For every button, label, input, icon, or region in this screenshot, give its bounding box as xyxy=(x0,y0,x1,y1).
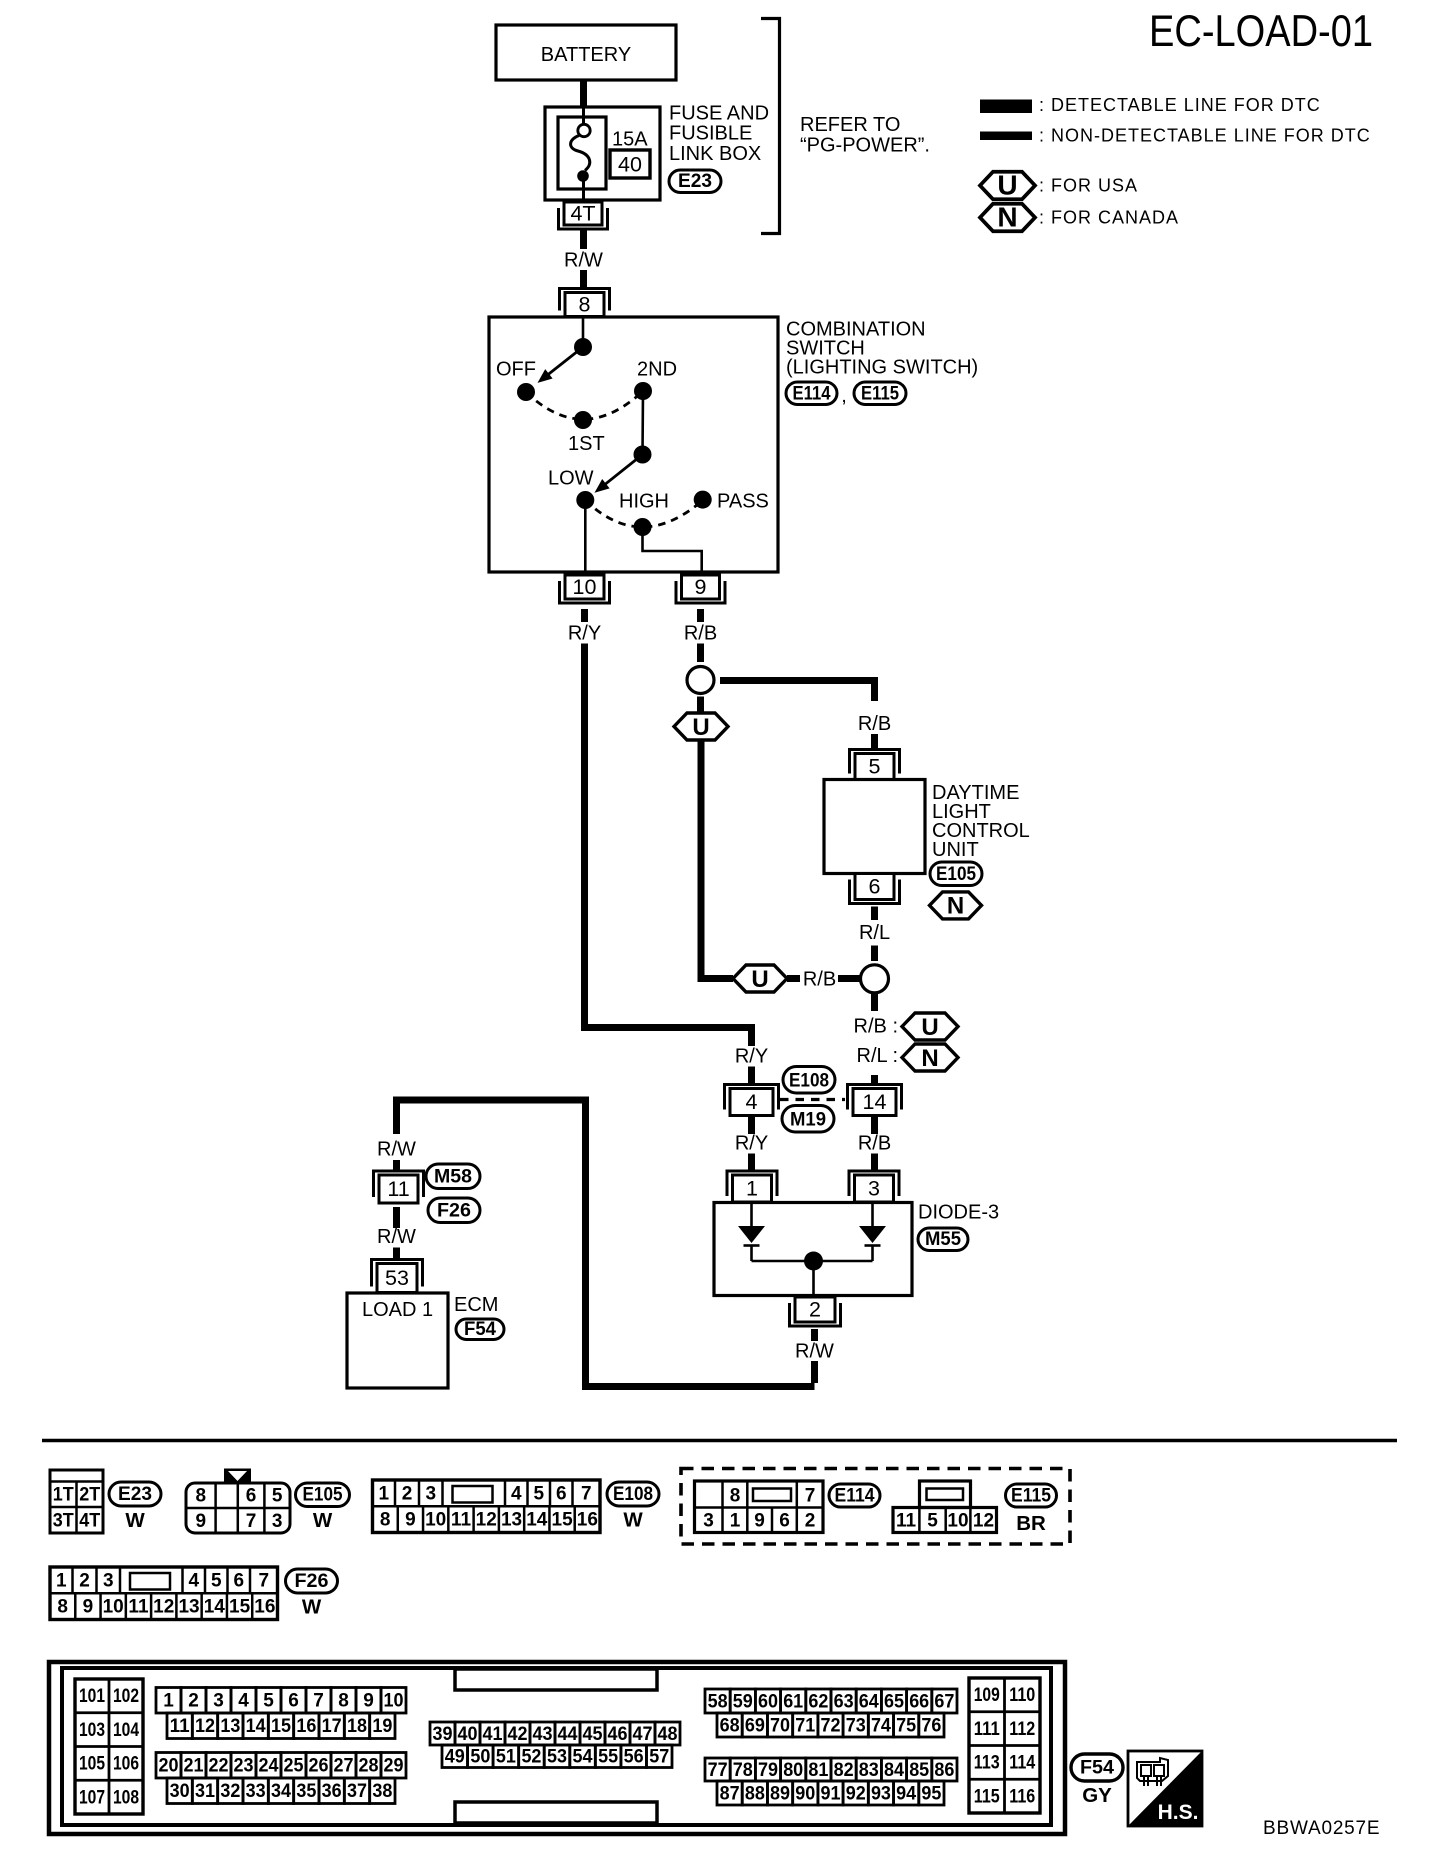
svg-text:25: 25 xyxy=(284,1756,304,1777)
svg-text:R/W: R/W xyxy=(564,250,603,272)
svg-text:50: 50 xyxy=(470,1747,490,1768)
svg-text:11: 11 xyxy=(896,1511,917,1532)
svg-text:44: 44 xyxy=(558,1724,578,1745)
svg-text:2: 2 xyxy=(809,1298,821,1322)
svg-text:42: 42 xyxy=(508,1724,528,1745)
svg-text:16: 16 xyxy=(577,1510,598,1531)
svg-text:8: 8 xyxy=(338,1691,349,1712)
svg-text:11: 11 xyxy=(128,1597,149,1618)
svg-text:N: N xyxy=(997,202,1017,233)
svg-text:REFER TO: REFER TO xyxy=(800,114,900,136)
svg-text:115: 115 xyxy=(974,1786,1000,1807)
svg-text:15: 15 xyxy=(229,1597,251,1618)
svg-text:W: W xyxy=(313,1509,333,1532)
svg-text:13: 13 xyxy=(178,1597,199,1618)
svg-text:4: 4 xyxy=(511,1484,522,1505)
svg-text:46: 46 xyxy=(608,1724,628,1745)
svg-text:U: U xyxy=(692,714,709,741)
svg-text:E115: E115 xyxy=(1011,1486,1051,1507)
svg-text:BR: BR xyxy=(1016,1512,1046,1535)
svg-text:38: 38 xyxy=(372,1781,392,1802)
svg-text:111: 111 xyxy=(974,1719,1000,1740)
svg-text:70: 70 xyxy=(770,1715,790,1736)
svg-text:8: 8 xyxy=(730,1486,741,1507)
svg-text:8: 8 xyxy=(57,1597,68,1618)
svg-text:2: 2 xyxy=(79,1571,90,1592)
svg-text:15A: 15A xyxy=(612,129,648,151)
svg-text:E114: E114 xyxy=(835,1486,875,1507)
svg-text:90: 90 xyxy=(795,1783,815,1804)
svg-text:E114: E114 xyxy=(793,384,831,405)
svg-text:14: 14 xyxy=(526,1510,548,1531)
svg-text:R/B :: R/B : xyxy=(854,1016,898,1038)
svg-text:DIODE-3: DIODE-3 xyxy=(918,1202,999,1224)
svg-text:64: 64 xyxy=(859,1691,879,1712)
svg-text:14: 14 xyxy=(863,1090,887,1114)
svg-text:U: U xyxy=(751,966,768,993)
svg-text:M58: M58 xyxy=(434,1167,472,1188)
svg-text:R/W: R/W xyxy=(377,1139,416,1161)
svg-text:6: 6 xyxy=(246,1486,257,1507)
svg-text:7: 7 xyxy=(581,1484,592,1505)
svg-text:11: 11 xyxy=(170,1716,190,1737)
svg-text:: FOR USA: : FOR USA xyxy=(1039,176,1138,196)
svg-text:5: 5 xyxy=(927,1511,938,1532)
svg-text:E105: E105 xyxy=(936,864,976,885)
svg-text:9: 9 xyxy=(405,1510,416,1531)
svg-text:3: 3 xyxy=(703,1511,714,1532)
svg-text:34: 34 xyxy=(271,1781,291,1802)
svg-text:76: 76 xyxy=(921,1715,941,1736)
svg-text:1: 1 xyxy=(746,1177,758,1201)
svg-text:10: 10 xyxy=(384,1691,404,1712)
svg-text:5: 5 xyxy=(533,1484,544,1505)
svg-text:: NON-DETECTABLE LINE FOR DTC: : NON-DETECTABLE LINE FOR DTC xyxy=(1039,126,1371,146)
svg-text:110: 110 xyxy=(1009,1685,1035,1706)
svg-text:43: 43 xyxy=(533,1724,553,1745)
svg-text:1ST: 1ST xyxy=(568,433,605,455)
svg-text:LOW: LOW xyxy=(548,468,594,490)
svg-text:55: 55 xyxy=(598,1747,618,1768)
svg-text:92: 92 xyxy=(846,1783,866,1804)
svg-text:R/Y: R/Y xyxy=(735,1133,768,1155)
svg-text:GY: GY xyxy=(1082,1784,1112,1807)
svg-text:51: 51 xyxy=(496,1747,516,1768)
svg-text:112: 112 xyxy=(1009,1719,1035,1740)
svg-text:20: 20 xyxy=(159,1756,179,1777)
svg-text:9: 9 xyxy=(363,1691,374,1712)
svg-text:R/B: R/B xyxy=(858,713,891,735)
svg-text:7: 7 xyxy=(805,1486,816,1507)
svg-text:R/L: R/L xyxy=(859,922,890,944)
svg-text:M19: M19 xyxy=(790,1110,826,1131)
svg-text:28: 28 xyxy=(359,1756,379,1777)
svg-text:E105: E105 xyxy=(303,1485,343,1506)
svg-text:2: 2 xyxy=(402,1484,413,1505)
svg-text:31: 31 xyxy=(195,1781,215,1802)
svg-text:114: 114 xyxy=(1009,1753,1035,1774)
svg-text:83: 83 xyxy=(859,1760,879,1781)
svg-text:BBWA0257E: BBWA0257E xyxy=(1263,1818,1380,1839)
svg-text:4: 4 xyxy=(188,1571,199,1592)
svg-text:86: 86 xyxy=(934,1760,954,1781)
svg-text:109: 109 xyxy=(974,1685,1000,1706)
svg-text:88: 88 xyxy=(745,1783,765,1804)
svg-text:F26: F26 xyxy=(437,1201,471,1222)
svg-text:F54: F54 xyxy=(1080,1758,1114,1779)
svg-text:95: 95 xyxy=(921,1783,941,1804)
svg-text:4T: 4T xyxy=(570,202,595,226)
svg-text:116: 116 xyxy=(1009,1786,1035,1807)
svg-text:8: 8 xyxy=(196,1486,207,1507)
svg-text:UNIT: UNIT xyxy=(932,839,979,861)
svg-text:63: 63 xyxy=(834,1691,854,1712)
svg-text:26: 26 xyxy=(309,1756,329,1777)
svg-text:22: 22 xyxy=(209,1756,229,1777)
svg-text:3: 3 xyxy=(868,1177,880,1201)
svg-text:21: 21 xyxy=(184,1756,204,1777)
svg-text:M55: M55 xyxy=(925,1229,961,1250)
svg-text:35: 35 xyxy=(296,1781,316,1802)
svg-text:84: 84 xyxy=(884,1760,904,1781)
svg-text:ECM: ECM xyxy=(454,1294,498,1316)
svg-text:E23: E23 xyxy=(118,1484,152,1505)
svg-text:FUSE AND: FUSE AND xyxy=(669,103,769,125)
svg-text:13: 13 xyxy=(501,1510,522,1531)
svg-text:16: 16 xyxy=(296,1716,316,1737)
svg-text:11: 11 xyxy=(451,1510,472,1531)
svg-text:29: 29 xyxy=(384,1756,404,1777)
svg-text:41: 41 xyxy=(483,1724,503,1745)
svg-text:102: 102 xyxy=(113,1686,139,1707)
svg-text:73: 73 xyxy=(846,1715,866,1736)
svg-text:53: 53 xyxy=(547,1747,567,1768)
svg-text:48: 48 xyxy=(658,1724,678,1745)
svg-text:47: 47 xyxy=(633,1724,653,1745)
svg-text:LINK BOX: LINK BOX xyxy=(669,143,761,165)
svg-text:12: 12 xyxy=(153,1597,174,1618)
svg-text:40: 40 xyxy=(458,1724,478,1745)
svg-text:U: U xyxy=(921,1014,938,1041)
svg-text:39: 39 xyxy=(433,1724,453,1745)
svg-text:59: 59 xyxy=(733,1691,753,1712)
svg-text:74: 74 xyxy=(871,1715,891,1736)
svg-text:17: 17 xyxy=(322,1716,342,1737)
svg-text:57: 57 xyxy=(649,1747,669,1768)
svg-text:68: 68 xyxy=(720,1715,740,1736)
svg-text:F54: F54 xyxy=(464,1319,496,1340)
svg-text:10: 10 xyxy=(573,575,597,599)
svg-text:19: 19 xyxy=(372,1716,392,1737)
svg-text:7: 7 xyxy=(258,1571,269,1592)
svg-text:6: 6 xyxy=(779,1511,790,1532)
svg-text:6: 6 xyxy=(288,1691,299,1712)
svg-text:1: 1 xyxy=(163,1691,174,1712)
svg-text:W: W xyxy=(125,1509,145,1532)
svg-text:1: 1 xyxy=(378,1484,389,1505)
svg-text:106: 106 xyxy=(113,1754,139,1775)
svg-text:1: 1 xyxy=(56,1571,67,1592)
svg-text:W: W xyxy=(623,1509,643,1532)
svg-text:60: 60 xyxy=(758,1691,778,1712)
svg-text:61: 61 xyxy=(783,1691,803,1712)
svg-text:40: 40 xyxy=(618,153,642,177)
svg-text:87: 87 xyxy=(720,1783,740,1804)
svg-text:R/B: R/B xyxy=(684,623,717,645)
svg-text:93: 93 xyxy=(871,1783,891,1804)
svg-text:30: 30 xyxy=(170,1781,190,1802)
svg-text:101: 101 xyxy=(79,1686,105,1707)
svg-text:2T: 2T xyxy=(79,1485,100,1506)
svg-text:45: 45 xyxy=(583,1724,603,1745)
svg-text:2: 2 xyxy=(805,1511,816,1532)
svg-text:9: 9 xyxy=(196,1511,207,1532)
svg-text:58: 58 xyxy=(708,1691,728,1712)
svg-text:14: 14 xyxy=(204,1597,226,1618)
svg-text:10: 10 xyxy=(103,1597,124,1618)
svg-text:94: 94 xyxy=(896,1783,916,1804)
svg-text:77: 77 xyxy=(708,1760,728,1781)
svg-text:85: 85 xyxy=(909,1760,929,1781)
svg-text:4: 4 xyxy=(238,1691,249,1712)
svg-text:72: 72 xyxy=(821,1715,841,1736)
svg-text:F26: F26 xyxy=(295,1571,329,1592)
svg-text:1T: 1T xyxy=(53,1485,74,1506)
svg-text:5: 5 xyxy=(272,1486,283,1507)
svg-text:75: 75 xyxy=(896,1715,916,1736)
svg-text:11: 11 xyxy=(387,1177,409,1201)
svg-text:3: 3 xyxy=(272,1511,283,1532)
svg-text:R/L :: R/L : xyxy=(857,1045,899,1067)
svg-text:103: 103 xyxy=(79,1720,105,1741)
svg-text:5: 5 xyxy=(869,755,881,779)
svg-text:10: 10 xyxy=(425,1510,446,1531)
svg-text:6: 6 xyxy=(556,1484,567,1505)
svg-text:4T: 4T xyxy=(79,1511,100,1532)
svg-text:56: 56 xyxy=(624,1747,644,1768)
svg-text:89: 89 xyxy=(770,1783,790,1804)
svg-text:9: 9 xyxy=(83,1597,94,1618)
svg-text:24: 24 xyxy=(259,1756,279,1777)
svg-text:4: 4 xyxy=(746,1090,758,1114)
svg-text:66: 66 xyxy=(909,1691,929,1712)
svg-text:8: 8 xyxy=(579,293,591,317)
svg-text:E108: E108 xyxy=(613,1484,653,1505)
svg-text:: DETECTABLE LINE FOR DTC: : DETECTABLE LINE FOR DTC xyxy=(1039,95,1321,115)
svg-text:108: 108 xyxy=(113,1787,139,1808)
svg-text:53: 53 xyxy=(385,1266,409,1290)
svg-text:65: 65 xyxy=(884,1691,904,1712)
svg-text:9: 9 xyxy=(754,1511,765,1532)
svg-text:6: 6 xyxy=(233,1571,244,1592)
svg-text:N: N xyxy=(947,893,964,920)
svg-text:E115: E115 xyxy=(861,384,899,405)
svg-text:PASS: PASS xyxy=(717,491,769,513)
svg-text:R/Y: R/Y xyxy=(735,1046,768,1068)
svg-text:LOAD 1: LOAD 1 xyxy=(362,1299,433,1321)
svg-text:54: 54 xyxy=(573,1747,593,1768)
svg-text:HIGH: HIGH xyxy=(619,491,669,513)
svg-text:78: 78 xyxy=(733,1760,753,1781)
svg-text:,: , xyxy=(841,385,847,407)
svg-text:23: 23 xyxy=(234,1756,254,1777)
svg-text:3: 3 xyxy=(213,1691,224,1712)
svg-text:R/B: R/B xyxy=(803,969,836,991)
svg-text:1: 1 xyxy=(730,1511,741,1532)
svg-text:7: 7 xyxy=(313,1691,324,1712)
svg-text:15: 15 xyxy=(552,1510,574,1531)
svg-text:52: 52 xyxy=(521,1747,541,1768)
svg-text:R/B: R/B xyxy=(858,1133,891,1155)
svg-text:6: 6 xyxy=(869,875,881,899)
svg-text:36: 36 xyxy=(322,1781,342,1802)
svg-text:(LIGHTING SWITCH): (LIGHTING SWITCH) xyxy=(786,357,978,379)
svg-text:E23: E23 xyxy=(678,171,712,192)
svg-text:E108: E108 xyxy=(789,1071,829,1092)
svg-text:79: 79 xyxy=(758,1760,778,1781)
svg-text:“PG-POWER”.: “PG-POWER”. xyxy=(800,135,930,157)
svg-text:5: 5 xyxy=(211,1571,222,1592)
svg-text:33: 33 xyxy=(246,1781,266,1802)
svg-text:9: 9 xyxy=(695,575,707,599)
svg-text:12: 12 xyxy=(973,1511,994,1532)
svg-text:18: 18 xyxy=(347,1716,367,1737)
svg-text:12: 12 xyxy=(195,1716,215,1737)
svg-text:67: 67 xyxy=(934,1691,954,1712)
svg-text:107: 107 xyxy=(79,1787,105,1808)
svg-text:8: 8 xyxy=(380,1510,391,1531)
svg-text:81: 81 xyxy=(808,1760,828,1781)
svg-text:27: 27 xyxy=(334,1756,354,1777)
svg-text:113: 113 xyxy=(974,1753,1000,1774)
svg-text:3: 3 xyxy=(103,1571,114,1592)
svg-text:15: 15 xyxy=(271,1716,291,1737)
svg-text:10: 10 xyxy=(947,1511,968,1532)
svg-text:71: 71 xyxy=(795,1715,815,1736)
svg-text:91: 91 xyxy=(821,1783,841,1804)
svg-text:N: N xyxy=(921,1045,938,1072)
svg-text:82: 82 xyxy=(834,1760,854,1781)
svg-text:14: 14 xyxy=(246,1716,266,1737)
svg-text:R/W: R/W xyxy=(377,1226,416,1248)
svg-text:BATTERY: BATTERY xyxy=(541,44,631,66)
svg-text:104: 104 xyxy=(113,1720,139,1741)
svg-text:FUSIBLE: FUSIBLE xyxy=(669,123,752,145)
svg-text:U: U xyxy=(997,170,1017,201)
svg-text:69: 69 xyxy=(745,1715,765,1736)
svg-text:2: 2 xyxy=(188,1691,199,1712)
svg-text:80: 80 xyxy=(783,1760,803,1781)
svg-text:: FOR CANADA: : FOR CANADA xyxy=(1039,208,1179,228)
svg-text:7: 7 xyxy=(246,1511,257,1532)
svg-text:32: 32 xyxy=(220,1781,240,1802)
svg-text:R/Y: R/Y xyxy=(568,623,601,645)
svg-text:13: 13 xyxy=(220,1716,240,1737)
svg-text:3T: 3T xyxy=(53,1511,74,1532)
svg-text:62: 62 xyxy=(808,1691,828,1712)
svg-text:16: 16 xyxy=(254,1597,275,1618)
svg-text:EC-LOAD-01: EC-LOAD-01 xyxy=(1149,7,1373,56)
svg-text:5: 5 xyxy=(263,1691,274,1712)
svg-text:OFF: OFF xyxy=(496,359,536,381)
svg-text:49: 49 xyxy=(445,1747,465,1768)
svg-text:105: 105 xyxy=(79,1754,105,1775)
svg-text:H.S.: H.S. xyxy=(1158,1801,1199,1824)
svg-text:W: W xyxy=(302,1596,322,1619)
svg-text:37: 37 xyxy=(347,1781,367,1802)
svg-text:3: 3 xyxy=(425,1484,436,1505)
svg-text:12: 12 xyxy=(476,1510,497,1531)
svg-text:2ND: 2ND xyxy=(637,359,677,381)
svg-text:R/W: R/W xyxy=(795,1341,834,1363)
